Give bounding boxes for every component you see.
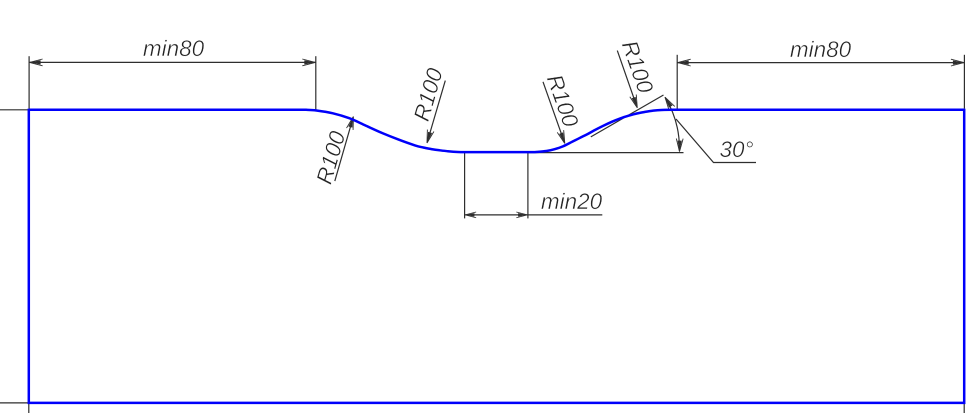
dimension min80 left: extension line 2: [315, 56, 317, 110]
dimension min20: extension line right: [527, 152, 529, 218]
wire: black surface continuation line top-left: [0, 109, 29, 111]
dimension min80 right: arrow right: [951, 59, 964, 66]
angle 30deg: tangent construction line: [591, 95, 664, 137]
dimension min20: arrow left: [465, 212, 476, 218]
angle 30deg: leader line: [676, 119, 756, 163]
angle 30deg: dimension arc: [665, 97, 679, 150]
dimension min20: arrow right: [516, 212, 527, 218]
radius leader R100 #3 (right concave arc): leader line: [543, 82, 563, 140]
dimension min20: extension line left: [464, 152, 466, 218]
radius leader R100 #3: arrow: [557, 130, 568, 145]
svg-text:30°: 30°: [719, 137, 753, 162]
dimension min80 left: dimension line: [29, 61, 316, 63]
wire: black edge continuation bottom-left vertical: [28, 403, 30, 413]
radius leader R100 #4 (right convex arc): leader line: [617, 51, 636, 104]
radius leader R100 #1 (left convex arc): leader line: [335, 121, 352, 181]
dimension min80 right: dimension line: [677, 62, 964, 64]
svg-text:R100: R100: [409, 65, 448, 124]
radius leader R100 #2 (left concave arc): leader line: [428, 81, 445, 139]
part top surface with groove (blue): [29, 110, 964, 152]
angle 30deg: arc arrow top: [662, 95, 675, 110]
dimension min80 left: extension line 1: [28, 56, 30, 108]
angle 30deg: arc arrow bottom: [676, 139, 683, 152]
dimension min80 left: arrow left: [30, 59, 43, 66]
dimension min80 right: arrow left: [678, 59, 691, 66]
radius leader R100 #2: arrow: [424, 130, 434, 144]
svg-text:R100: R100: [312, 128, 351, 187]
radius leader R100 #4: arrow: [630, 95, 641, 110]
part profile (blue outline with groove): [29, 109, 964, 403]
svg-text:min20: min20: [541, 189, 603, 214]
dimension min80 right: extension line 2: [963, 55, 965, 109]
svg-text:R100: R100: [542, 71, 584, 131]
dimension min80 right: extension line 1: [676, 55, 678, 109]
svg-text:min80: min80: [143, 36, 205, 61]
svg-text:min80: min80: [790, 37, 852, 62]
dimension min80 left: arrow right: [302, 59, 315, 66]
radius leader R100 #1: arrow: [347, 116, 357, 130]
angle 30deg: horizontal reference line: [528, 152, 684, 154]
dimension min20: dimension line with right extension: [465, 214, 603, 216]
wire: black surface continuation line bottom-left horizontal: [0, 402, 29, 404]
wire: black edge continuation bottom-right vertical: [963, 403, 965, 413]
